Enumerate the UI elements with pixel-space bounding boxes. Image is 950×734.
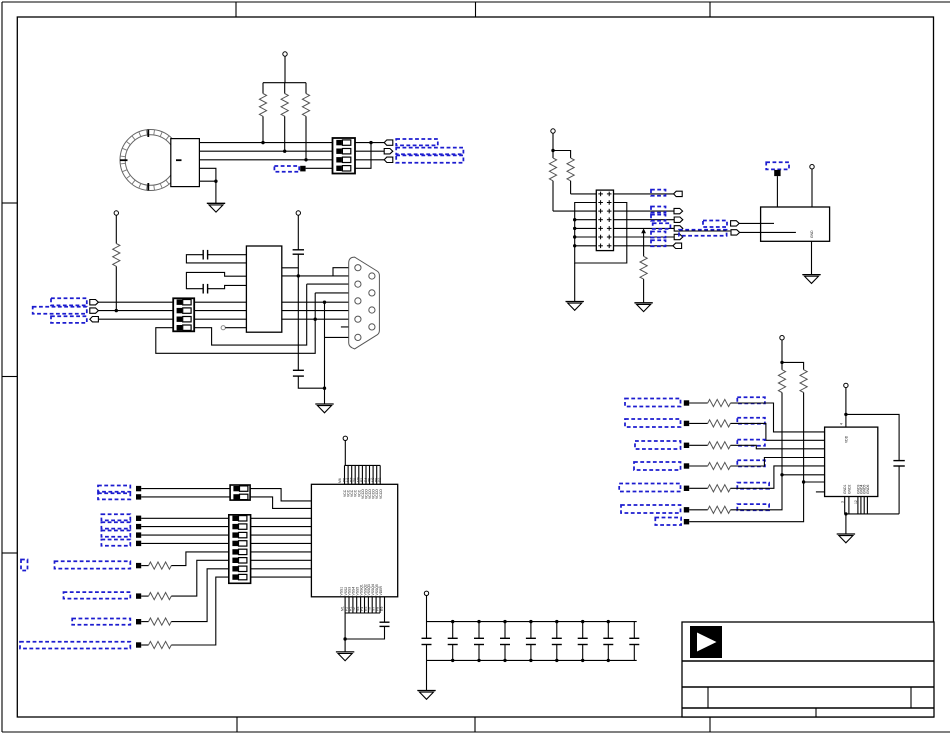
junction gnd cap: [343, 637, 346, 640]
resistor R1: [259, 83, 266, 143]
net flag A2: [384, 149, 393, 154]
junction row1 v324: [323, 301, 326, 304]
wire C2 to J3: [98, 310, 173, 312]
junction pin4/pin5: [214, 180, 217, 183]
J5 pin3 cell: [232, 532, 247, 537]
svg-text:GND: GND: [810, 230, 814, 238]
wire U1 pin row to DB9 pin6: [282, 275, 369, 277]
net terminal square D7: [136, 563, 141, 568]
connector J1 body: [333, 138, 356, 174]
connector J1 pin3 cell: [336, 157, 351, 162]
junction cap3 riser row: [297, 274, 300, 277]
wire E7 to U4 row7: [689, 482, 824, 522]
ground G6: [336, 652, 354, 661]
wire header row4 stub left: [575, 219, 597, 221]
net label box above U2: [766, 162, 789, 169]
power node VCC E: [780, 336, 784, 340]
header J2 plus marks: [598, 192, 611, 249]
net label box E1: [625, 399, 681, 407]
resistor R5: [567, 158, 574, 194]
svg-text:P8: P8: [376, 607, 380, 611]
svg-text:R9: R9: [380, 607, 384, 611]
wire E3 to U4 row3: [731, 445, 825, 449]
net label box A1: [396, 139, 438, 145]
J5 pin5 cell: [232, 549, 247, 554]
capacitor C1: [186, 250, 246, 263]
junction bus row6: [573, 235, 576, 238]
J5 pin7 cell: [232, 566, 247, 571]
U4 GND pin labels: [841, 484, 870, 504]
connector J3 pin1 cell: [177, 300, 192, 305]
DB9 pin9 circle: [369, 324, 375, 330]
wire C3 to J3: [98, 318, 173, 320]
wire U1 row3 right to DB9 pin4: [282, 318, 355, 320]
speaker LS1 ring: [120, 130, 181, 191]
U4 bottom gnd pins: [845, 497, 899, 514]
junction bus row5: [573, 227, 576, 230]
connector J3 pin3 cell: [177, 317, 192, 322]
wire J1 pin2 to flag: [355, 150, 384, 152]
capacitor C9: [474, 620, 484, 662]
svg-text:3: 3: [841, 501, 845, 503]
wire J1 pin3 to flag: [355, 159, 384, 161]
DB9 connector P1 shell: [349, 257, 380, 349]
wire E2 to U4 row2: [731, 423, 825, 440]
wire E6 to U4 row6: [731, 475, 825, 510]
ground G3: [634, 303, 652, 312]
wire D3 to J5: [141, 517, 229, 519]
wire row5 tap down to R6 with arrow: [641, 228, 646, 256]
resistor R15: [689, 462, 730, 469]
wire D6 to J5: [141, 542, 229, 544]
speaker tick east: [176, 159, 182, 161]
cap bank bottom rail: [427, 659, 637, 661]
resistor R10: [141, 569, 229, 625]
net flag B4: [674, 217, 683, 222]
net flag B3: [674, 208, 683, 213]
svg-text:R2: R2: [378, 478, 382, 482]
wire R5 to header row1: [571, 193, 597, 195]
net flag B7: [673, 243, 682, 248]
net label box D10: [20, 642, 130, 649]
net label box E3b: [737, 440, 765, 446]
resistor R3: [302, 83, 309, 160]
no-connect circle U1 row4: [221, 326, 246, 330]
resistor R11: [141, 577, 229, 649]
resistor R18 pullup1: [778, 370, 785, 475]
wire header row5 right: [614, 227, 675, 229]
U2 pin2 inner stub: [761, 231, 796, 233]
small blue box at left border: [21, 560, 28, 571]
svg-text:VCCO: VCCO: [379, 489, 383, 499]
wire J1 pin4 riser: [355, 143, 371, 169]
border zone tick left 2: [2, 376, 17, 378]
U3 top pin names VCC: [338, 477, 383, 499]
net terminal square D5: [136, 532, 141, 537]
net label box E2: [625, 419, 681, 427]
cap bank top rail: [427, 621, 637, 623]
wire C1 to J3: [98, 301, 173, 303]
net terminal square U2 top: [774, 170, 780, 176]
wire J3 pin4 loop right: [194, 284, 307, 345]
svg-text:M6: M6: [338, 478, 342, 483]
wire D2 to J4: [141, 496, 230, 498]
net terminal square E2: [684, 421, 689, 426]
net terminal square D6: [136, 541, 141, 546]
junction row3 v315: [314, 318, 317, 321]
net label box E5: [619, 484, 680, 492]
wire power to pin bus: [344, 441, 346, 466]
wire header row6 right: [614, 236, 675, 238]
wire U1 row2 right to DB9 pin8: [282, 310, 369, 312]
net label box D4: [101, 522, 130, 528]
capacitor C6: [893, 461, 904, 514]
power node U4: [844, 383, 848, 387]
border zone tick top 3: [709, 2, 711, 17]
header J2 body: [596, 190, 613, 251]
wire U2 gnd pin: [811, 241, 813, 274]
speaker tick west: [120, 159, 128, 161]
speaker LS1 body rectangle: [171, 139, 200, 187]
net terminal square E1: [684, 400, 689, 405]
resistor R8: [141, 552, 229, 569]
wires J5 pins to U3: [251, 518, 312, 577]
net label box E6b: [737, 504, 769, 510]
capacitor C14: [603, 620, 613, 662]
net label box D8: [64, 592, 131, 599]
wire speaker pin4: [199, 168, 216, 181]
power node VCC A: [283, 52, 287, 56]
DB9 pin1 circle: [355, 265, 361, 271]
net label box D2: [98, 493, 130, 499]
net label box D7: [55, 561, 131, 568]
net label box E2b: [737, 418, 765, 424]
wire D5 to J5: [141, 534, 229, 536]
wire square A4 to J1: [306, 167, 333, 169]
resistor R13: [689, 420, 730, 427]
resistor R7: [113, 215, 120, 310]
svg-text:12: 12: [854, 500, 858, 504]
wire header left bus: [575, 203, 627, 264]
wire E5 to U4 row5: [731, 466, 825, 488]
wire header row1 right: [614, 193, 674, 195]
border zone tick bottom 3: [709, 717, 711, 732]
ground G4: [802, 275, 820, 284]
IC U2 body: [761, 207, 830, 241]
net flag B6: [674, 234, 683, 239]
net flag U2 pin2: [731, 230, 740, 235]
resistor R17: [689, 506, 730, 513]
capacitor C11: [526, 620, 536, 662]
U3 bottom pins: [345, 597, 380, 613]
power node VCC C: [114, 211, 118, 215]
capacitor C5: [345, 597, 389, 639]
power node VCC F: [424, 591, 428, 595]
wire J1 pin1 to flag: [355, 142, 384, 144]
junction pullup rail: [780, 361, 783, 364]
U3 bottom pin names VSS: [340, 584, 384, 611]
wire cap3 riser to cap C4: [297, 268, 299, 371]
capacitor C8: [448, 620, 458, 662]
speaker tick south: [147, 183, 149, 191]
junction vdd cap branch: [844, 413, 847, 416]
J5 pin1 cell: [232, 516, 247, 521]
wire header row3 right: [614, 210, 675, 212]
net label box D3: [101, 514, 130, 520]
junction power branch: [551, 149, 554, 152]
wire DB9 pin9 stub: [341, 326, 369, 328]
wire D1 to J4: [141, 488, 230, 490]
wire U2 top pin2: [811, 169, 813, 207]
ground G2: [566, 302, 584, 311]
wire power to rail: [426, 596, 428, 639]
net label box D6: [101, 540, 130, 546]
wire pullup rail: [263, 82, 306, 84]
U4 unconnected stub: [816, 491, 825, 493]
wire E4 to U4 row4: [731, 458, 825, 467]
DB9 pin2 circle: [355, 281, 361, 287]
power node U2: [810, 165, 814, 169]
junction pullup2 row7: [802, 480, 805, 483]
svg-text:GND6: GND6: [866, 484, 870, 494]
net terminal square E6: [684, 507, 689, 512]
jumper block J5 body: [229, 515, 251, 584]
border zone tick left 3: [2, 552, 17, 554]
resistor R14: [689, 442, 730, 449]
net label box D9: [72, 619, 130, 625]
ground G8: [417, 691, 435, 700]
net flag U2 pin1: [731, 221, 740, 226]
svg-text:4: 4: [840, 423, 844, 425]
net label box B4: [651, 215, 666, 221]
J5 pin4 cell: [232, 541, 247, 546]
capacitor C15: [629, 622, 639, 661]
net label box E4: [634, 462, 681, 470]
wire D4 to J5: [141, 526, 229, 528]
ground G1: [207, 203, 225, 212]
wire power to rail: [284, 56, 286, 82]
net label box A4 (left of J1 pin4): [274, 166, 299, 172]
net terminal square D2: [136, 494, 141, 499]
wire J3 pin1 to U1: [194, 301, 246, 303]
net flag B5: [674, 226, 683, 231]
J5 pin6 cell: [232, 558, 247, 563]
J5 pin2 cell: [232, 524, 247, 529]
wire DB9 pin2 stub: [307, 283, 355, 285]
net terminal square E3: [684, 443, 689, 448]
resistor R6: [640, 256, 647, 303]
ground G5: [315, 404, 333, 413]
wire DB9 pin7 stub: [315, 292, 369, 294]
power node VCC B: [551, 129, 555, 133]
wire U1 row1 right to DB9 pin3: [282, 301, 355, 303]
border zone tick bottom 1: [236, 717, 238, 732]
wire U3 gnd rail: [344, 613, 346, 652]
ground G7: [837, 534, 855, 543]
junction U4 gnd bus: [844, 512, 847, 515]
junction bus row4: [573, 218, 576, 221]
net label box E7: [655, 518, 681, 526]
wire speaker pin3: [199, 159, 332, 161]
wire U2 top pin1: [776, 176, 778, 207]
wire vdd to cap C6: [846, 414, 899, 460]
wire pullup rail: [782, 340, 804, 370]
resistor R4: [549, 158, 556, 211]
DB9 pin7 circle: [369, 290, 375, 296]
wire DB9 pin1/pin6 bracket: [333, 268, 355, 276]
wire E1 to U4 row1: [731, 403, 825, 432]
J4 pin1 cell: [233, 486, 248, 491]
border zone tick left 1: [2, 202, 17, 204]
long net label box B9: [679, 230, 727, 236]
net terminal square D4: [136, 524, 141, 529]
connector J3 pin2 cell: [177, 308, 192, 313]
wire header row7 stub left: [575, 245, 597, 247]
border zone tick top 1: [235, 2, 237, 17]
wire inside label B9: [680, 230, 730, 232]
long net label box B8: [703, 221, 727, 228]
wire header row5 stub left: [575, 227, 597, 229]
net terminal square D10: [136, 642, 141, 647]
wire header row7 right: [614, 245, 674, 247]
net label box A3: [396, 155, 463, 162]
junction R7 row2: [115, 309, 118, 312]
power node VCC D: [343, 436, 347, 440]
net label box E6: [621, 505, 681, 513]
wire J3 pin4 loop left: [156, 293, 315, 353]
net label box E3: [635, 441, 681, 449]
net label box C3: [51, 316, 87, 323]
net label box B5: [653, 223, 671, 229]
junction bus row7: [573, 244, 576, 247]
capacitor C13: [578, 620, 588, 662]
resistor R2: [281, 83, 288, 152]
wire speaker pin5 to ground: [199, 181, 216, 203]
net flag C3: [90, 317, 99, 322]
resistor R9: [141, 560, 229, 599]
connector J1 pin2 cell: [336, 149, 351, 154]
net terminal square E7: [684, 519, 689, 524]
resistor R12: [689, 399, 730, 406]
net flag C1: [90, 300, 99, 305]
border zone tick top 2: [475, 2, 477, 17]
border zone tick bottom 2: [474, 717, 476, 732]
resistor R19 pullup2: [800, 370, 807, 482]
net label box E1b: [737, 397, 765, 403]
wire J3 pin2 to U1: [194, 310, 246, 312]
svg-text:VDD: VDD: [845, 435, 849, 443]
net label box E4b: [737, 460, 765, 466]
junction pullup1 row6: [780, 473, 783, 476]
junction C4 gnd: [323, 387, 326, 390]
wire U2 pin2: [740, 231, 761, 233]
capacitor C4: [293, 370, 325, 388]
net label box D5: [101, 531, 130, 537]
jumper block J4 body: [230, 485, 250, 500]
net label box D1: [98, 486, 130, 492]
J5 pin8 cell: [232, 574, 247, 579]
title block: [682, 622, 934, 717]
net label box B3: [651, 207, 666, 213]
connector J1 pin1 cell: [336, 140, 351, 145]
net terminal square D1: [136, 486, 141, 491]
wire J3 pin3 to U1: [194, 318, 246, 320]
DB9 pin4 circle: [355, 316, 361, 322]
IC U3 body: [311, 484, 397, 597]
net terminal square D3: [136, 516, 141, 521]
speaker tick north: [147, 130, 149, 138]
DB9 pin5 circle: [355, 334, 361, 340]
U3 top power pins: [345, 465, 381, 484]
wire U4 to ground: [845, 514, 847, 534]
capacitor C12: [552, 620, 562, 662]
net label box A2: [396, 148, 463, 155]
junction R3 wire3: [304, 158, 307, 161]
net terminal square D9: [136, 619, 141, 624]
net label box C2: [33, 307, 87, 314]
svg-text:VDER: VDER: [379, 586, 383, 596]
net flag A1: [384, 140, 393, 145]
resistor R16: [689, 485, 730, 492]
net flag A3: [384, 157, 393, 162]
capacitor C3: [282, 215, 304, 268]
wire J4 pin1 to U3: [250, 489, 311, 501]
power node cap C3: [296, 211, 300, 215]
IC U1 body: [246, 246, 281, 332]
net terminal square A4: [300, 166, 305, 172]
net label box B6: [651, 232, 666, 238]
IC U4 body: [825, 427, 878, 496]
wire header row6 stub left: [575, 236, 597, 238]
net flag C2: [90, 308, 99, 313]
wire bus to ground: [574, 263, 576, 302]
net terminal square E5: [684, 486, 689, 491]
connector J1 pin4 cell: [336, 166, 351, 171]
connector J3 pin4 cell: [177, 325, 192, 330]
J4 pin2 cell: [233, 494, 248, 499]
junction R2 wire2: [283, 150, 286, 153]
net label box B1: [651, 190, 666, 196]
wire U2 pin1: [739, 222, 760, 224]
wire speaker pin2: [199, 150, 332, 152]
DB9 pin8 circle: [369, 307, 375, 313]
net terminal square D8: [136, 593, 141, 598]
DB9 pin6 circle: [369, 273, 375, 279]
wire header row4 right: [614, 219, 675, 221]
net flag B1: [674, 191, 683, 196]
net label box E5b: [737, 483, 769, 489]
capacitor C10: [500, 620, 510, 662]
wire DB9 pin5 to ground: [325, 302, 355, 404]
net label box C1: [51, 298, 87, 305]
svg-text:GND2: GND2: [847, 484, 851, 494]
capacitor C2: [186, 272, 246, 293]
DB9 pin3 circle: [355, 298, 361, 304]
wire speaker pin1: [199, 142, 332, 144]
junction J1 pin4/pin1: [369, 141, 372, 144]
wire rail to ground: [426, 660, 428, 690]
wire U4 vdd: [845, 388, 847, 428]
connector J3 body: [173, 298, 194, 331]
net label box B7: [651, 240, 666, 246]
capacitor C7: [422, 638, 432, 660]
Analog Devices logo: [690, 626, 722, 658]
wire J4 pin2 to U3: [250, 497, 311, 509]
net terminal square E4: [684, 463, 689, 468]
wire R4 to header row3: [553, 210, 596, 212]
U2 pin1 inner stub: [761, 222, 774, 224]
wire branch to R5: [553, 151, 571, 159]
